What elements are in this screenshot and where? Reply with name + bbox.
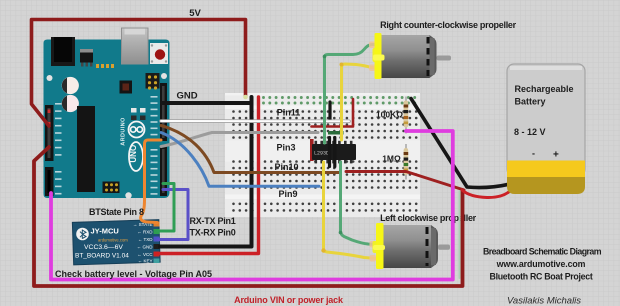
svg-text:Pin11: Pin11 xyxy=(277,108,301,118)
svg-text:100KΩ: 100KΩ xyxy=(376,110,403,120)
svg-text:www.ardumotive.com: www.ardumotive.com xyxy=(496,259,586,269)
svg-text:8 - 12 V: 8 - 12 V xyxy=(514,127,546,137)
svg-text:← VCC: ← VCC xyxy=(137,252,153,257)
svg-text:Breadboard Schematic Diagram: Breadboard Schematic Diagram xyxy=(483,247,602,257)
svg-text:L293D: L293D xyxy=(314,151,329,157)
svg-text:+: + xyxy=(553,150,559,161)
svg-text:← GND: ← GND xyxy=(137,245,154,250)
svg-text:Vasilakis Michalis: Vasilakis Michalis xyxy=(507,296,581,306)
svg-text:Right counter-clockwise propel: Right counter-clockwise propeller xyxy=(380,20,517,30)
svg-text:GND: GND xyxy=(176,91,197,102)
svg-text:Bluetooth RC Boat Project: Bluetooth RC Boat Project xyxy=(490,272,593,282)
svg-text:VCC3.6—6V: VCC3.6—6V xyxy=(84,244,123,251)
svg-text:← RXD: ← RXD xyxy=(137,230,153,235)
svg-text:Pin3: Pin3 xyxy=(276,143,295,153)
svg-text:Pin9: Pin9 xyxy=(278,189,297,199)
svg-text:Battery: Battery xyxy=(515,97,546,107)
svg-text:5V: 5V xyxy=(189,8,201,19)
svg-text:RX-TX Pin1: RX-TX Pin1 xyxy=(190,216,236,226)
svg-text:← TXD: ← TXD xyxy=(138,237,153,242)
svg-text:-: - xyxy=(532,149,535,159)
svg-text:JY-MCU: JY-MCU xyxy=(91,227,119,236)
svg-text:Arduino VIN or power jack: Arduino VIN or power jack xyxy=(234,295,344,305)
svg-text:UNO: UNO xyxy=(129,145,138,163)
svg-text:Rechargeable: Rechargeable xyxy=(515,84,574,94)
svg-text:ardumotive.com: ardumotive.com xyxy=(98,238,128,243)
svg-text:BTState Pin 8: BTState Pin 8 xyxy=(89,207,144,217)
svg-text:Check battery level - Voltage: Check battery level - Voltage Pin A05 xyxy=(55,269,212,279)
svg-text:BT_BOARD V1.04: BT_BOARD V1.04 xyxy=(75,253,129,260)
svg-text:Pin10: Pin10 xyxy=(274,162,298,172)
svg-text:TX-RX Pin0: TX-RX Pin0 xyxy=(190,228,236,238)
svg-text:ARDUINO: ARDUINO xyxy=(121,117,127,146)
svg-text:1MΩ: 1MΩ xyxy=(382,154,401,164)
svg-text:← KEY: ← KEY xyxy=(138,259,153,264)
